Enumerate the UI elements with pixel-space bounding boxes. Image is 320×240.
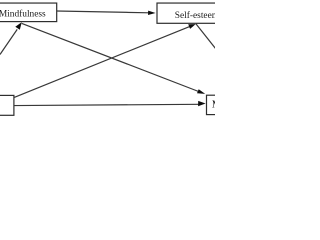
- box bottom-left (cropped): [0, 95, 14, 115]
- svg-text:Mindfulness: Mindfulness: [0, 9, 46, 20]
- svg-text:Mobile phone addiction: Mobile phone addiction: [212, 99, 215, 111]
- arrow Mindfulness to bottom-right box: [22, 23, 205, 94]
- svg-text:Self-esteem: Self-esteem: [175, 10, 215, 21]
- box Self-esteem: [157, 3, 235, 23]
- box Mindfulness: [0, 3, 57, 22]
- arrow bottom-left box to bottom-right box: [14, 101, 206, 106]
- arrow bottom-left box to Self-esteem: [14, 24, 196, 98]
- line Self-esteem to bottom-right box (exits right edge): [196, 24, 216, 49]
- box bottom-right (cropped): [207, 95, 318, 114]
- arrow bottom-left box to Mindfulness: [0, 22, 22, 54]
- arrow Mindfulness to Self-esteem: [57, 11, 156, 15]
